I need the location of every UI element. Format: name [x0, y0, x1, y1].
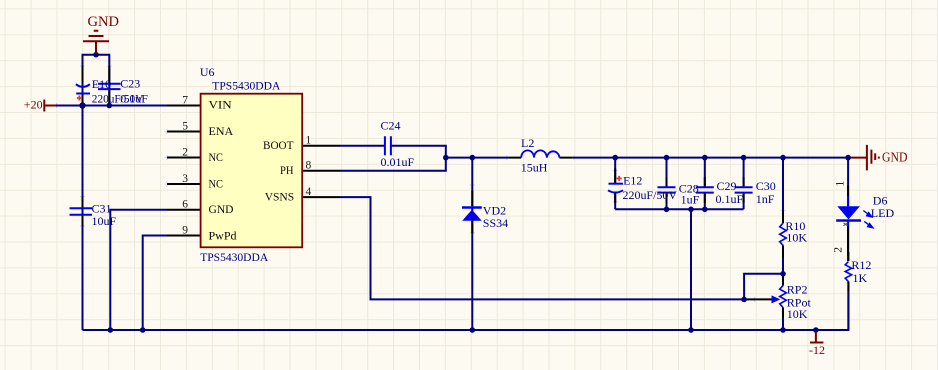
svg-text:1nF: 1nF — [756, 192, 775, 206]
svg-text:VIN: VIN — [209, 98, 233, 112]
svg-text:GND: GND — [88, 14, 119, 30]
svg-text:TPS5430DDA: TPS5430DDA — [200, 250, 268, 264]
svg-text:7: 7 — [182, 94, 188, 106]
svg-text:BOOT: BOOT — [263, 138, 294, 152]
svg-text:C23: C23 — [120, 76, 140, 90]
svg-text:VSNS: VSNS — [265, 190, 295, 204]
svg-text:RP2: RP2 — [787, 283, 808, 297]
svg-text:1: 1 — [306, 134, 312, 146]
svg-text:C30: C30 — [756, 179, 776, 193]
svg-text:LED: LED — [871, 206, 895, 220]
svg-text:TPS5430DDA: TPS5430DDA — [212, 78, 280, 92]
svg-text:PH: PH — [280, 163, 294, 177]
svg-text:10uF: 10uF — [92, 214, 117, 228]
svg-text:8: 8 — [306, 159, 312, 171]
svg-text:C29: C29 — [717, 179, 737, 193]
svg-text:0.01uF: 0.01uF — [381, 155, 415, 169]
svg-text:4: 4 — [306, 186, 312, 198]
svg-text:10K: 10K — [786, 230, 807, 244]
svg-text:E12: E12 — [623, 173, 642, 187]
svg-text:GND: GND — [882, 151, 908, 166]
svg-text:9: 9 — [182, 224, 188, 236]
svg-text:1K: 1K — [853, 271, 868, 285]
svg-text:1: 1 — [835, 181, 847, 187]
svg-text:1uF: 1uF — [681, 193, 700, 207]
svg-text:SS34: SS34 — [483, 216, 508, 230]
svg-text:-12: -12 — [809, 343, 825, 357]
svg-text:2: 2 — [833, 247, 845, 253]
svg-text:PwPd: PwPd — [209, 228, 237, 242]
svg-text:NC: NC — [209, 150, 224, 164]
svg-text:C24: C24 — [381, 119, 401, 133]
svg-text:220uF/50V: 220uF/50V — [623, 188, 678, 202]
svg-text:U6: U6 — [200, 65, 215, 79]
svg-text:5: 5 — [182, 120, 188, 132]
svg-text:0.1uF: 0.1uF — [120, 91, 148, 105]
svg-text:2: 2 — [182, 146, 188, 158]
svg-text:E10: E10 — [92, 77, 111, 91]
svg-text:ENA: ENA — [209, 124, 234, 138]
svg-text:GND: GND — [209, 202, 234, 216]
svg-text:10K: 10K — [787, 307, 808, 321]
svg-text:L2: L2 — [521, 136, 534, 150]
svg-text:6: 6 — [182, 199, 188, 211]
svg-text:+20: +20 — [24, 98, 43, 112]
svg-text:3: 3 — [182, 173, 188, 185]
svg-text:R12: R12 — [851, 258, 871, 272]
svg-text:0.1uF: 0.1uF — [716, 192, 744, 206]
svg-text:15uH: 15uH — [521, 161, 548, 175]
svg-text:NC: NC — [209, 176, 224, 190]
